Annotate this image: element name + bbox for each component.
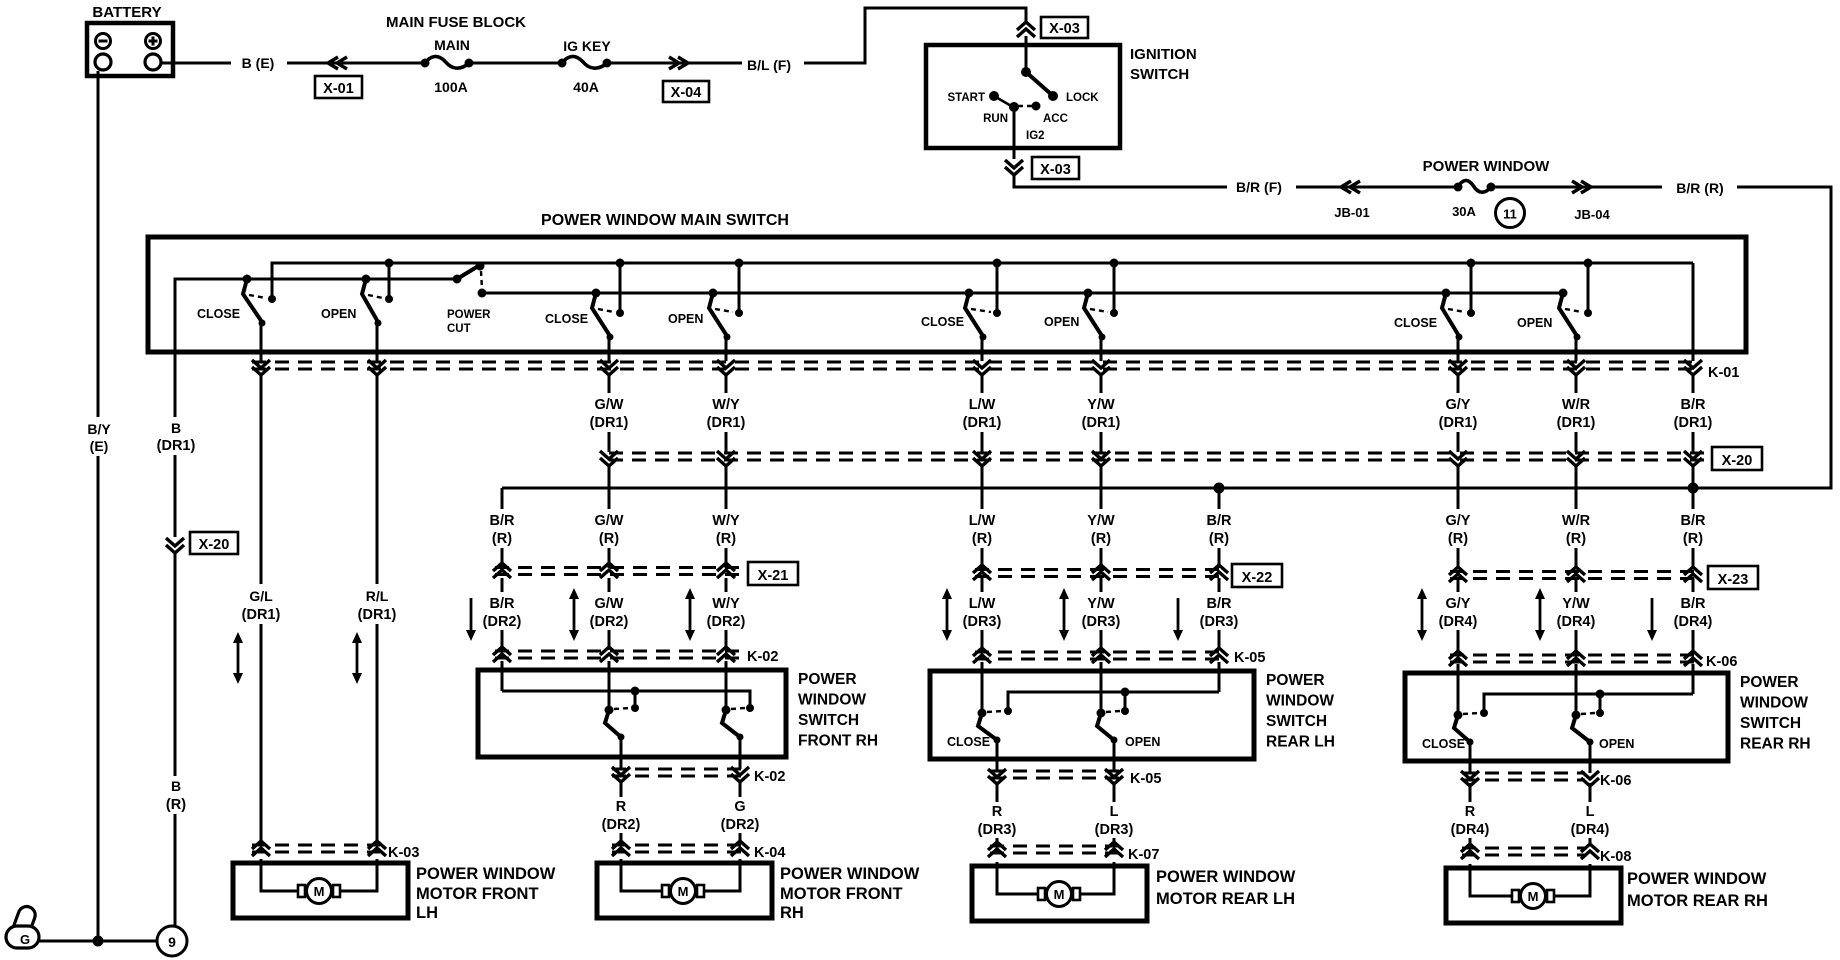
svg-text:K-06: K-06 — [1706, 654, 1737, 670]
connector K-03 pin at x=377 — [368, 841, 386, 849]
wire G/W (DR2) stub — [608, 578, 611, 592]
svg-text:B: B — [171, 420, 181, 436]
svg-text:POWER WINDOW: POWER WINDOW — [1423, 158, 1550, 175]
svg-text:W/R: W/R — [1562, 397, 1591, 413]
contact RUN — [1009, 102, 1019, 112]
svg-text:R/L: R/L — [366, 588, 389, 604]
wire OPEN front LH to K-01 — [376, 323, 379, 361]
connector arrow X-04 — [678, 57, 688, 69]
connector K-01 pin at x=1576 — [1567, 360, 1585, 368]
svg-text:M: M — [1054, 887, 1065, 902]
connector X-20 (left) — [190, 532, 238, 554]
svg-text:(R): (R) — [1683, 531, 1703, 547]
svg-text:(DR1): (DR1) — [590, 415, 629, 431]
svg-text:G/Y: G/Y — [1446, 397, 1471, 413]
wire L/W (DR1) lower segment — [981, 432, 984, 452]
direction arrow at W/Y (DR2) — [689, 596, 692, 633]
wire B/R DR1 from bus 1 — [1692, 263, 1695, 361]
switch OPEN rear LH pivot — [1084, 289, 1093, 298]
svg-text:B/R: B/R — [1207, 596, 1233, 612]
svg-text:CLOSE: CLOSE — [947, 735, 990, 749]
wire G/W (R) to connector — [608, 548, 611, 568]
svg-text:G: G — [20, 932, 30, 947]
connector row X-20 dashed lines — [609, 452, 1706, 455]
svg-text:G/Y: G/Y — [1446, 596, 1471, 612]
svg-text:X-01: X-01 — [323, 81, 354, 97]
connector row K-02 upper dashed lines — [495, 650, 742, 653]
wire G/Y (DR1) upper segment — [1457, 374, 1460, 393]
wire L/W (R) to connector — [981, 548, 984, 568]
wire L (DR4) lower stub — [1589, 838, 1592, 846]
svg-text:B (E): B (E) — [242, 55, 275, 71]
power window switch front RH OPEN alternate contact — [746, 704, 754, 712]
wire B/R (R) front drop — [501, 488, 504, 509]
svg-text:POWER WINDOW: POWER WINDOW — [416, 865, 556, 883]
power window switch rear RH CLOSE output wire — [1469, 742, 1472, 773]
power window switch front RH CLOSE dashed alternate — [614, 708, 630, 709]
svg-text:K-04: K-04 — [754, 845, 785, 861]
connector X-21 — [748, 562, 798, 585]
connector K-02 lower pin at x=740 — [731, 767, 749, 775]
power window switch front RH CLOSE wire entry — [608, 661, 611, 710]
wire W/R (DR1) upper segment — [1575, 374, 1578, 393]
power window motor front LH right wire — [339, 859, 377, 891]
svg-text:IG2: IG2 — [1026, 130, 1045, 142]
svg-text:R: R — [616, 799, 627, 815]
svg-text:MOTOR REAR RH: MOTOR REAR RH — [1627, 892, 1768, 910]
wire L (DR3) upper stub — [1113, 783, 1116, 802]
svg-text:BATTERY: BATTERY — [92, 4, 161, 21]
connector X-20 pin at x=1693 — [1684, 451, 1702, 459]
connector X-23 pin at x=1458 — [1449, 567, 1467, 575]
switch OPEN front LH pivot — [362, 275, 371, 284]
power window switch rear LH CLOSE lever — [978, 713, 997, 740]
connector X-20 (right) — [1712, 447, 1762, 470]
wire L/W X-20 to (R) label — [981, 465, 984, 509]
svg-text:POWER: POWER — [1740, 674, 1799, 691]
wire G/W (DR1) lower segment — [608, 432, 611, 452]
connector X-20 pin at x=1458 — [1449, 451, 1467, 459]
svg-text:X-03: X-03 — [1040, 162, 1071, 178]
wire Y/W (DR3) stub — [1100, 578, 1103, 592]
svg-text:(DR3): (DR3) — [1082, 614, 1121, 630]
svg-text:POWER WINDOW MAIN SWITCH: POWER WINDOW MAIN SWITCH — [541, 212, 789, 229]
battery positive terminal — [145, 54, 161, 70]
power window switch rear RH OPEN output wire — [1589, 742, 1592, 773]
svg-text:(R): (R) — [716, 531, 736, 547]
wire CLOSE rear LH to K-01 — [981, 337, 984, 361]
switch POWER CUT dashed alternate — [481, 271, 482, 289]
contact ACC — [1032, 102, 1041, 111]
svg-text:CLOSE: CLOSE — [921, 315, 964, 329]
power window switch rear LH OPEN alternate contact — [1121, 707, 1129, 715]
svg-text:(DR1): (DR1) — [1674, 415, 1713, 431]
connector X-20 pin at x=1576 — [1567, 451, 1585, 459]
svg-text:POWER WINDOW: POWER WINDOW — [780, 865, 920, 883]
svg-text:(R): (R) — [1091, 531, 1111, 547]
power window switch rear LH OPEN pivot — [1097, 709, 1106, 718]
fuse MAIN 100A — [421, 59, 430, 68]
wire B/Y (E) lower — [97, 456, 100, 941]
svg-text:(DR3): (DR3) — [978, 822, 1017, 838]
connector K-07 pin at x=997 — [988, 842, 1006, 850]
svg-text:OPEN: OPEN — [1599, 737, 1634, 751]
wire OPEN rear RH to K-01 — [1575, 337, 1578, 361]
power window motor front RH right wire — [703, 859, 740, 891]
connector X-04 — [663, 81, 709, 102]
svg-text:OPEN: OPEN — [668, 312, 703, 326]
wire G/L (DR1) lower — [260, 624, 263, 844]
junction OPEN front LH alternate on bus 1 — [385, 259, 394, 268]
svg-text:CUT: CUT — [447, 323, 471, 335]
wire battery to B(E) — [162, 62, 231, 65]
battery — [87, 23, 173, 76]
power window switch rear RH CLOSE wire entry — [1457, 664, 1460, 715]
svg-text:K-07: K-07 — [1128, 847, 1159, 863]
power window switch rear LH CLOSE alternate contact — [1004, 707, 1012, 715]
wire B(E) to fuse block — [287, 62, 424, 65]
svg-text:MOTOR FRONT: MOTOR FRONT — [416, 885, 539, 903]
svg-text:L: L — [1110, 804, 1119, 820]
connector row K-06 upper dashed lines — [1450, 654, 1700, 657]
svg-text:MAIN: MAIN — [434, 37, 470, 53]
wire Y/W (DR1) lower segment — [1100, 432, 1103, 452]
power window switch rear RH OPEN wire entry — [1575, 664, 1578, 715]
wire START to RUN contact — [994, 96, 1013, 107]
svg-text:W/Y: W/Y — [712, 397, 740, 413]
wire Y/W X-20 to (R) label — [1100, 465, 1103, 509]
contact LOCK — [1048, 91, 1058, 101]
power window switch rear LH CLOSE wire entry — [981, 662, 984, 713]
wire Y/W (DR4) stub — [1575, 578, 1578, 592]
ignition lever to LOCK — [1026, 72, 1052, 95]
wire IG KEY fuse to X-04 — [607, 62, 742, 65]
svg-text:R: R — [992, 804, 1003, 820]
connector K-06 upper pin at x=1458 — [1449, 651, 1467, 659]
connector K-01 pin at x=982 — [973, 360, 991, 368]
svg-text:MOTOR FRONT: MOTOR FRONT — [780, 885, 903, 903]
switch CLOSE rear LH lever — [965, 293, 983, 336]
svg-text:POWER WINDOW: POWER WINDOW — [1156, 868, 1296, 886]
connector K-01 pin at x=1101 — [1092, 360, 1110, 368]
bus wire 1 (top) — [272, 263, 1693, 299]
bus wire 3 (power cut out) — [482, 292, 1563, 295]
svg-text:OPEN: OPEN — [1044, 315, 1079, 329]
svg-text:X-20: X-20 — [199, 537, 230, 553]
switch OPEN rear RH lever — [1559, 293, 1577, 336]
direction arrow G/L — [237, 640, 240, 676]
ignition switch U1 — [926, 45, 1120, 148]
wire R (DR3) upper stub — [996, 783, 999, 802]
junction supply at B/R DR1 — [1688, 483, 1699, 494]
switch OPEN rear LH lever — [1084, 293, 1102, 336]
svg-text:9: 9 — [168, 934, 176, 950]
junction CLOSE front RH alternate on bus 1 — [616, 259, 625, 268]
connector row X-21 dashed lines — [495, 566, 745, 569]
wire G (DR2) upper stub — [739, 783, 742, 797]
wire B (R) upper — [174, 552, 177, 776]
connector arrow JB-01 — [1341, 181, 1351, 193]
battery positive symbol — [146, 34, 161, 49]
power window switch rear RH OPEN dashed alternate — [1581, 713, 1595, 714]
switch CLOSE front RH dashed alternate — [598, 309, 614, 312]
svg-text:G/W: G/W — [595, 596, 624, 612]
connector X-21 pin at x=609 — [600, 563, 618, 571]
wire OPEN rear LH to K-01 — [1100, 337, 1103, 361]
direction arrow at G/Y (DR4) — [1421, 596, 1424, 633]
switch OPEN rear RH dashed alternate — [1565, 309, 1582, 312]
power window switch front RH CLOSE output wire — [620, 737, 623, 769]
connector K-08 pin at x=1470 — [1461, 844, 1479, 852]
svg-text:W/R: W/R — [1562, 513, 1591, 529]
junction OPEN rear LH alternate on bus 1 — [1110, 259, 1119, 268]
svg-text:L/W: L/W — [969, 596, 996, 612]
wire B/Y (E) upper — [97, 71, 100, 417]
svg-text:X-03: X-03 — [1049, 21, 1080, 37]
svg-text:REAR RH: REAR RH — [1740, 736, 1811, 753]
switch POWER CUT pivot — [453, 275, 462, 284]
battery negative symbol — [96, 34, 111, 49]
connector X-22 pin at x=1101 — [1092, 565, 1110, 573]
svg-text:(R): (R) — [492, 531, 512, 547]
svg-text:FRONT RH: FRONT RH — [798, 733, 878, 750]
power window switch rear LH CLOSE dashed alternate — [987, 711, 1003, 712]
wire CLOSE front LH to K-01 — [260, 323, 263, 361]
wire R/L (DR1) lower — [376, 624, 379, 844]
fuse number 11 — [1496, 199, 1525, 228]
wire R (DR4) lower stub — [1469, 838, 1472, 846]
connector X-20 pin at x=609 — [600, 451, 618, 459]
connector X-03 top — [1041, 17, 1088, 38]
svg-text:(DR2): (DR2) — [590, 614, 629, 630]
svg-text:SWITCH: SWITCH — [1130, 66, 1189, 83]
wire L/W (DR1) upper segment — [981, 374, 984, 393]
svg-text:B/L (F): B/L (F) — [747, 57, 791, 73]
power window switch rear RH feed junction — [1596, 690, 1605, 699]
switch OPEN front RH lever — [709, 293, 727, 336]
connector row K-07 dashed lines — [990, 845, 1120, 848]
svg-text:(DR1): (DR1) — [1439, 415, 1478, 431]
svg-text:CLOSE: CLOSE — [197, 307, 240, 321]
svg-text:JB-01: JB-01 — [1334, 205, 1369, 220]
svg-text:R: R — [1465, 804, 1476, 820]
svg-text:CLOSE: CLOSE — [545, 312, 588, 326]
wire W/Y (DR2) to K row — [725, 630, 728, 650]
wire B/R (DR4) to K row — [1692, 630, 1695, 650]
svg-text:G/L: G/L — [249, 588, 273, 604]
wire B/R (R) to connector — [501, 548, 504, 568]
connector X-20 pin at x=726 — [717, 451, 735, 459]
svg-text:B/R: B/R — [1681, 596, 1707, 612]
power window switch rear LH OPEN dashed alternate — [1106, 711, 1120, 712]
wire B/R (DR3) stub — [1218, 578, 1221, 592]
wire W/Y (DR2) stub — [725, 578, 728, 592]
wire L (DR4) upper stub — [1589, 783, 1592, 802]
power window switch rear RH feed wire — [1484, 694, 1693, 711]
svg-text:G/W: G/W — [595, 397, 624, 413]
connector K-04 pin at x=740 — [731, 841, 749, 849]
connector row K-08 dashed lines — [1462, 847, 1585, 850]
svg-text:(DR1): (DR1) — [157, 438, 196, 454]
connector row K-06 lower dashed lines — [1462, 772, 1585, 775]
svg-text:X-22: X-22 — [1242, 570, 1273, 586]
svg-text:(DR1): (DR1) — [242, 607, 281, 623]
power window switch front RH CLOSE alternate contact — [631, 704, 639, 712]
junction CLOSE rear LH alternate on bus 1 — [993, 259, 1002, 268]
svg-text:K-08: K-08 — [1600, 849, 1631, 865]
connector K-03 pin at x=261 — [252, 841, 270, 849]
connector K-06 upper pin at x=1576 — [1567, 651, 1585, 659]
ground point 9 — [157, 926, 187, 956]
svg-text:OPEN: OPEN — [1517, 316, 1552, 330]
power window motor front RH box — [597, 863, 772, 918]
svg-text:B: B — [171, 778, 181, 794]
power window switch rear LH CLOSE pivot — [978, 709, 987, 718]
wire L/W (DR3) to K row — [981, 630, 984, 650]
contact START — [989, 91, 999, 101]
motor symbol power window motor rear RH — [1512, 890, 1519, 902]
svg-text:K-01: K-01 — [1708, 365, 1739, 381]
svg-text:(DR2): (DR2) — [721, 817, 760, 833]
motor symbol power window motor front RH — [662, 885, 669, 897]
wire G/W (DR1) upper segment — [608, 374, 611, 393]
wire B/R X-20 to (R) label — [1692, 465, 1695, 509]
direction arrow at B/R (DR4) — [1651, 598, 1654, 633]
switch OPEN front LH dashed alternate — [368, 295, 383, 298]
wire B/R (DR4) stub — [1692, 578, 1695, 592]
direction arrow at B/R (DR3) — [1177, 598, 1180, 633]
svg-text:(DR3): (DR3) — [1200, 614, 1239, 630]
connector X-23 pin at x=1693 — [1684, 567, 1702, 575]
connector K-05 upper pin at x=1219 — [1210, 648, 1228, 656]
wire R/L (DR1) upper — [376, 374, 379, 584]
wire G/Y (R) to connector — [1457, 548, 1460, 568]
power window motor front RH left wire — [621, 859, 663, 891]
power window motor front LH left wire — [261, 859, 299, 891]
connector row K-04 dashed lines — [612, 844, 748, 847]
svg-text:POWER: POWER — [1266, 672, 1325, 689]
svg-text:LH: LH — [416, 904, 438, 922]
svg-text:JB-04: JB-04 — [1574, 207, 1610, 222]
power window switch front RH CLOSE lever — [605, 710, 621, 737]
connector K-01 pin at x=1693 — [1684, 360, 1702, 368]
svg-text:REAR LH: REAR LH — [1266, 734, 1335, 751]
connector X-20 pin on B wire — [166, 538, 184, 546]
svg-text:X-21: X-21 — [758, 568, 789, 584]
power window switch front RH feed wire — [502, 691, 750, 706]
switch OPEN rear LH dashed alternate — [1090, 309, 1108, 312]
svg-text:WINDOW: WINDOW — [1740, 695, 1808, 712]
connector X-21 pin at x=502 — [493, 563, 511, 571]
svg-text:K-06: K-06 — [1600, 773, 1631, 789]
svg-text:(R): (R) — [166, 797, 186, 813]
svg-text:B/R (F): B/R (F) — [1236, 179, 1282, 195]
power window main switch box — [148, 237, 1746, 352]
svg-text:POWER: POWER — [447, 309, 491, 321]
switch OPEN front RH dashed alternate — [715, 309, 733, 312]
wire L (DR3) lower stub — [1113, 838, 1116, 846]
power window switch rear LH feed junction — [1121, 688, 1130, 697]
power window motor rear LH box — [972, 866, 1147, 921]
switch POWER CUT lever — [457, 265, 480, 279]
svg-text:LOCK: LOCK — [1066, 92, 1099, 104]
wire G/Y (DR4) stub — [1457, 578, 1460, 592]
svg-text:K-02: K-02 — [754, 769, 785, 785]
svg-text:B/R: B/R — [1681, 397, 1707, 413]
power window switch rear RH OPEN lever — [1572, 715, 1590, 742]
wire B/R (DR1) upper segment — [1692, 374, 1695, 393]
motor symbol power window motor rear LH — [1038, 888, 1045, 900]
connector K-01 pin at x=609 — [600, 360, 618, 368]
wire Y/W (DR3) to K row — [1100, 630, 1103, 650]
switch OPEN rear RH pivot — [1559, 289, 1568, 298]
svg-text:RUN: RUN — [983, 113, 1008, 125]
wire L/W (DR3) stub — [981, 578, 984, 592]
svg-text:(DR1): (DR1) — [358, 607, 397, 623]
junction supply at rear LH B/R — [1214, 483, 1225, 494]
power window motor rear RH box — [1446, 868, 1621, 923]
svg-text:(DR4): (DR4) — [1571, 822, 1610, 838]
svg-text:B/R: B/R — [490, 596, 516, 612]
svg-text:B/R (R): B/R (R) — [1676, 180, 1723, 196]
switch CLOSE front LH pivot — [243, 275, 252, 284]
connector row K-02 lower dashed lines — [612, 768, 748, 771]
svg-text:K-02: K-02 — [747, 649, 778, 665]
power window switch front RH feed junction — [631, 687, 640, 696]
wire R (DR2) lower stub — [620, 833, 623, 841]
svg-text:(R): (R) — [1566, 531, 1586, 547]
wire G (DR2) lower stub — [739, 833, 742, 841]
wire B/L(F) to ignition switch — [804, 8, 1026, 63]
junction OPEN rear RH alternate on bus 1 — [1584, 259, 1593, 268]
motor symbol power window motor front LH — [298, 885, 305, 897]
connector K-05 lower pin at x=1114 — [1105, 769, 1123, 777]
wire Y/W (DR1) upper segment — [1100, 374, 1103, 393]
power window switch rear RH OPEN pivot — [1572, 711, 1581, 720]
wire R (DR4) upper stub — [1469, 783, 1472, 802]
junction CLOSE rear RH alternate on bus 1 — [1467, 259, 1476, 268]
connector X-23 — [1708, 566, 1758, 589]
svg-text:OPEN: OPEN — [321, 307, 356, 321]
svg-text:CLOSE: CLOSE — [1422, 737, 1465, 751]
switch CLOSE front RH pivot — [592, 289, 601, 298]
svg-text:Y/W: Y/W — [1562, 596, 1590, 612]
power window motor rear RH left wire — [1470, 864, 1513, 896]
connector row K-05 upper dashed lines — [975, 651, 1228, 654]
svg-text:(DR4): (DR4) — [1557, 614, 1596, 630]
wire B/R (R) to connector — [1218, 548, 1221, 568]
connector K-06 lower pin at x=1470 — [1461, 771, 1479, 779]
connector K-02 upper pin at x=609 — [600, 647, 618, 655]
svg-text:Y/W: Y/W — [1087, 397, 1115, 413]
connector K-01 pin at x=377 — [368, 360, 386, 368]
connector K-05 lower pin at x=997 — [988, 769, 1006, 777]
svg-text:(R): (R) — [1209, 531, 1229, 547]
connector X-01 — [315, 76, 362, 98]
svg-text:G/W: G/W — [595, 513, 624, 529]
svg-text:(R): (R) — [972, 531, 992, 547]
wire R (DR2) upper stub — [620, 783, 623, 797]
wire CLOSE rear RH to K-01 — [1457, 337, 1460, 361]
svg-text:MAIN FUSE BLOCK: MAIN FUSE BLOCK — [386, 14, 526, 31]
svg-text:(DR2): (DR2) — [602, 817, 641, 833]
power window switch front RH OPEN dashed alternate — [731, 708, 745, 709]
svg-text:Y/W: Y/W — [1087, 513, 1115, 529]
wire G/W (DR2) to K row — [608, 630, 611, 650]
connector K-01 pin at x=726 — [717, 360, 735, 368]
junction OPEN front RH alternate on bus 1 — [735, 259, 744, 268]
svg-text:K-03: K-03 — [388, 845, 419, 861]
